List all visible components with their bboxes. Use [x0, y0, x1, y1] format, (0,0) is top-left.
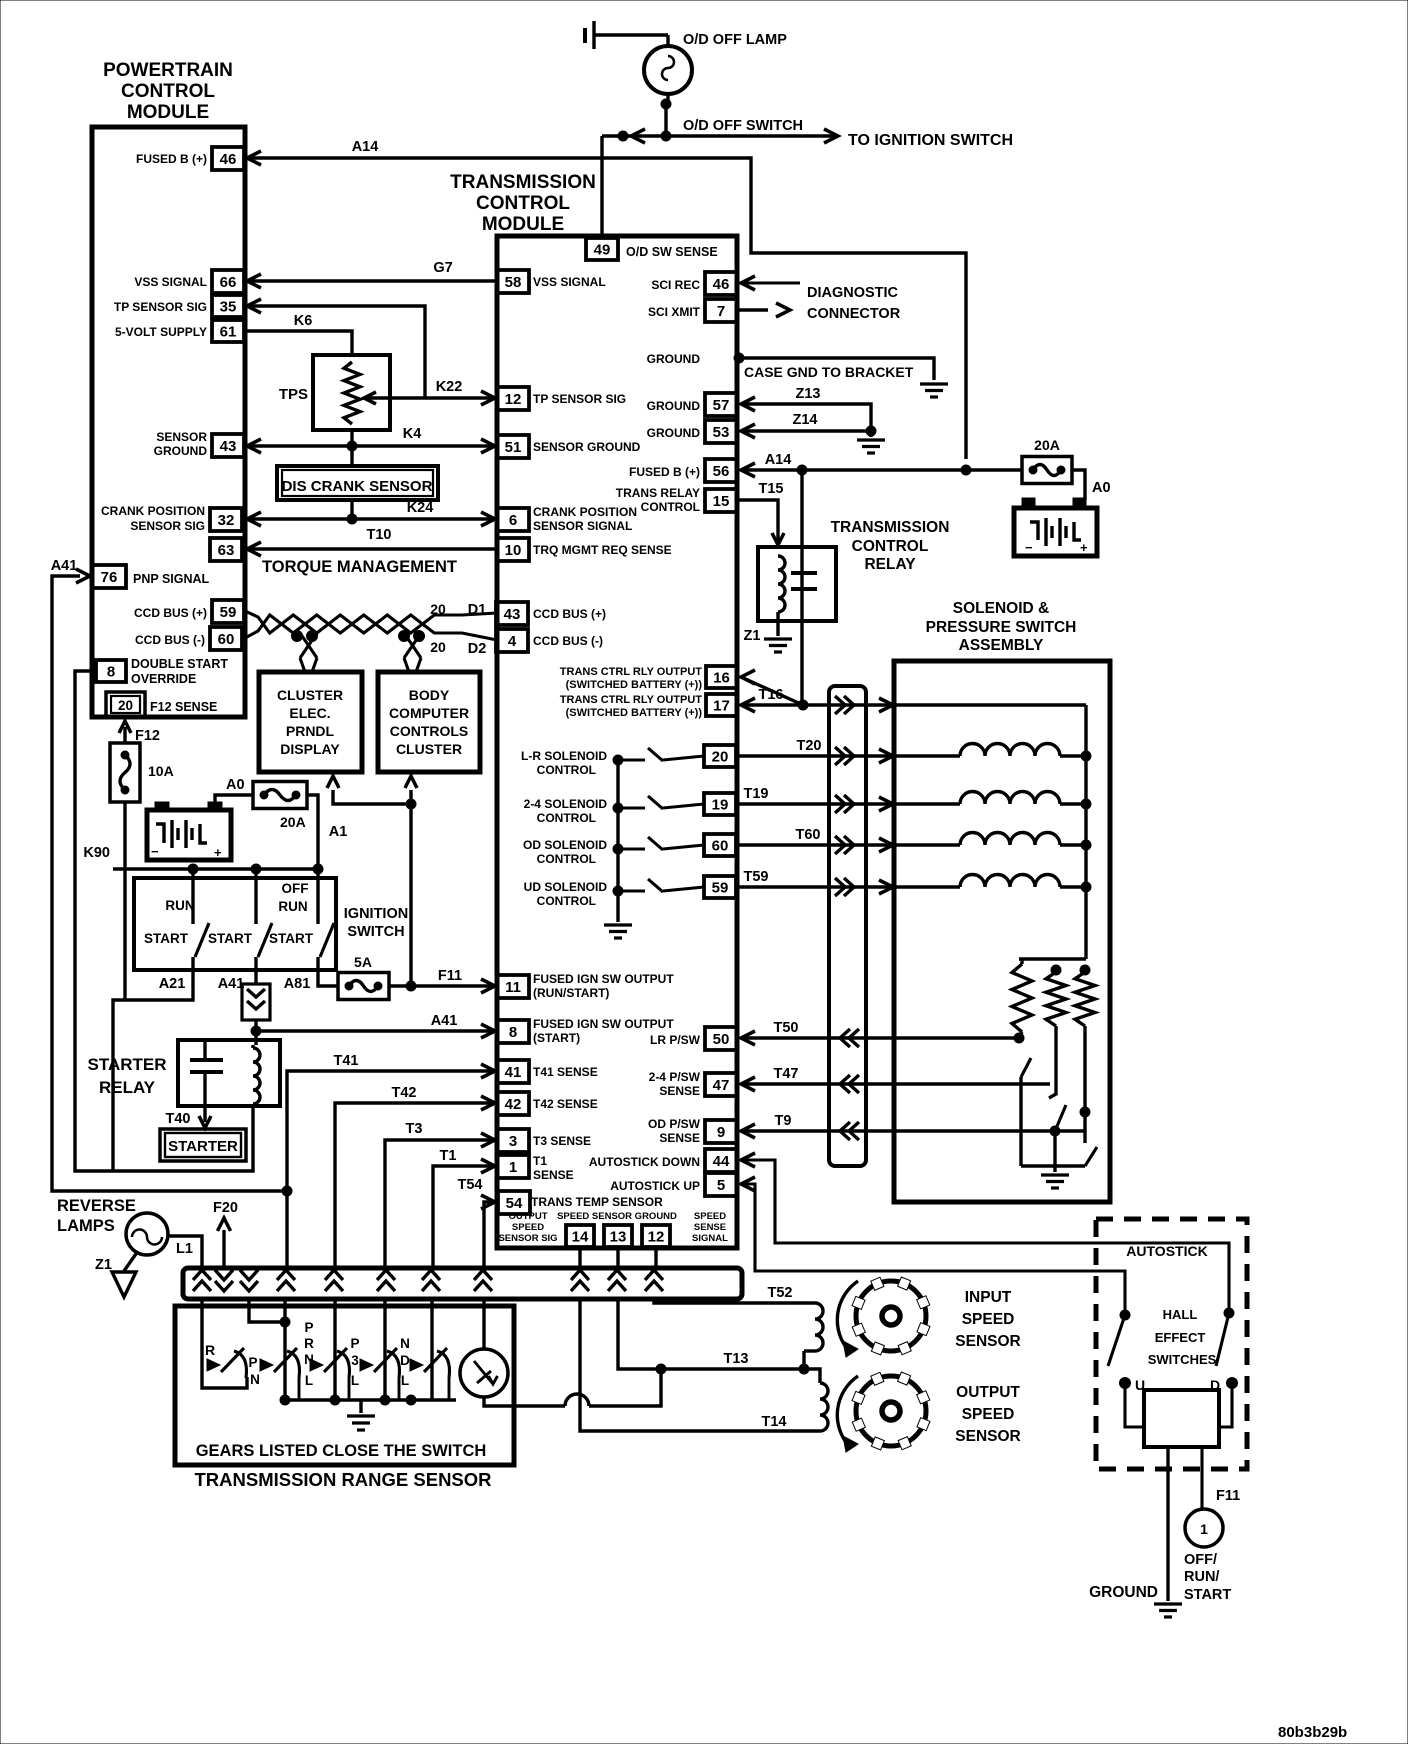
arrow T60 into assembly — [879, 838, 893, 852]
svg-text:AUTOSTICK UP: AUTOSTICK UP — [610, 1179, 700, 1193]
wire Z14 ground — [741, 429, 871, 432]
svg-text:43: 43 — [504, 606, 521, 623]
svg-text:Z1: Z1 — [744, 628, 761, 644]
svg-text:L-R SOLENOID: L-R SOLENOID — [521, 749, 607, 763]
svg-text:SENSOR SIGNAL: SENSOR SIGNAL — [533, 519, 632, 533]
wire T13 to output coil — [804, 1369, 820, 1383]
svg-text:5A: 5A — [354, 954, 372, 970]
hall switch down contact — [1224, 1308, 1234, 1318]
svg-text:T9: T9 — [775, 1113, 792, 1129]
svg-text:INPUT: INPUT — [965, 1289, 1012, 1306]
svg-text:FUSED B (+): FUSED B (+) — [136, 152, 207, 166]
ground Z1 triangle — [112, 1272, 136, 1297]
svg-text:P: P — [248, 1355, 257, 1370]
svg-text:T41 SENSE: T41 SENSE — [533, 1065, 598, 1079]
wire U to module — [1125, 1388, 1144, 1427]
svg-text:54: 54 — [506, 1195, 523, 1212]
svg-text:+: + — [214, 845, 222, 860]
pin 3 T3 SENSE — [497, 1129, 529, 1152]
wire T41 sense — [287, 1071, 495, 1268]
svg-text:Z1: Z1 — [95, 1257, 112, 1273]
PCM box — [92, 127, 245, 717]
wire PRNL feed — [283, 1298, 286, 1400]
svg-text:T52: T52 — [768, 1285, 793, 1301]
svg-text:ASSEMBLY: ASSEMBLY — [959, 637, 1044, 654]
wire coil to bus T60 — [1060, 843, 1086, 846]
wire TPS bottom to K4 — [350, 428, 353, 446]
svg-text:T10: T10 — [367, 527, 392, 543]
wire K6 5-volt supply to TPS — [245, 331, 352, 357]
ignition switch pole OFF/RUN/START — [316, 869, 319, 924]
junction on switch wire left — [618, 131, 628, 141]
arrow T59 into assembly — [879, 880, 893, 894]
switch range NDL — [410, 1359, 423, 1371]
svg-text:20A: 20A — [280, 814, 306, 830]
pin 51 SENSOR GROUND — [497, 435, 529, 458]
pin 60 OD SOLENOID CONTROL — [704, 834, 736, 856]
switch range PRNL — [310, 1359, 323, 1371]
pin 53 GROUND — [705, 420, 737, 443]
pin 54 TRANS TEMP SENSOR — [498, 1191, 530, 1214]
lamp reverse — [126, 1213, 168, 1255]
arrow into starter — [199, 1116, 211, 1128]
junction 4th rail — [406, 1395, 416, 1405]
input speed sensor rotation arrow — [837, 1281, 858, 1351]
junction CCD drop to body computer a — [399, 631, 410, 642]
bar chevron up at 654 — [645, 1270, 663, 1291]
svg-text:A41: A41 — [51, 558, 78, 574]
wire from feed to O/D off lamp — [594, 33, 668, 36]
svg-text:SCI XMIT: SCI XMIT — [648, 305, 701, 319]
junction T50 node — [1014, 1033, 1024, 1043]
svg-text:1: 1 — [509, 1159, 517, 1176]
svg-text:4: 4 — [508, 633, 517, 650]
svg-text:TRANSMISSION RANGE SENSOR: TRANSMISSION RANGE SENSOR — [194, 1469, 491, 1490]
svg-text:A21: A21 — [159, 976, 186, 992]
svg-text:D: D — [400, 1353, 410, 1368]
svg-text:60: 60 — [218, 631, 235, 648]
pin 17 TRANS CTRL RLY OUTPUT — [706, 694, 737, 716]
svg-text:T3: T3 — [406, 1121, 423, 1137]
svg-text:T59: T59 — [744, 869, 769, 885]
BODY COMPUTER CONTROLS CLUSTER box — [378, 672, 480, 772]
switch range R — [207, 1359, 220, 1371]
svg-text:P: P — [350, 1336, 359, 1351]
svg-text:O/D SW SENSE: O/D SW SENSE — [626, 245, 718, 259]
arrow into PCM pin 76 — [76, 569, 90, 583]
CLUSTER ELEC PRNDL DISPLAY box — [259, 672, 362, 772]
svg-text:12: 12 — [648, 1229, 665, 1246]
svg-text:SWITCHES: SWITCHES — [1148, 1352, 1217, 1367]
svg-text:6: 6 — [509, 512, 517, 529]
pin 5 AUTOSTICK UP — [705, 1173, 737, 1196]
svg-text:3: 3 — [351, 1353, 359, 1368]
wire A21 to starter relay — [113, 970, 193, 1171]
svg-text:T42 SENSE: T42 SENSE — [533, 1097, 598, 1111]
junction rail start — [251, 864, 261, 874]
junction A14 relay branch — [797, 465, 807, 475]
junction NDL rail — [380, 1395, 390, 1405]
wire T54 trans temp sensor — [484, 1202, 497, 1268]
svg-text:T1: T1 — [533, 1154, 547, 1168]
TPS box — [313, 355, 390, 430]
junction TCM case ground — [734, 353, 744, 363]
solenoid feed bus — [1084, 705, 1087, 959]
CCD drop twist to body computer — [404, 633, 421, 658]
bar chevron up at 617 — [608, 1270, 626, 1291]
wire PRNL jog — [249, 1298, 285, 1322]
STARTER box — [160, 1129, 246, 1161]
svg-text:O/D OFF SWITCH: O/D OFF SWITCH — [683, 118, 803, 134]
svg-text:START: START — [208, 931, 253, 946]
wire pin 12 to bar — [654, 1248, 657, 1268]
svg-text:CRANK POSITION: CRANK POSITION — [533, 505, 637, 519]
solenoid coil T20 — [960, 744, 1060, 757]
arrow into PCM pin 43 — [247, 439, 261, 453]
svg-text:SENSE: SENSE — [694, 1222, 726, 1233]
arrow into cluster box — [327, 776, 339, 788]
arrow into TCM pin 46 — [741, 276, 755, 290]
connector F11 circle 1 — [1185, 1509, 1223, 1547]
pin 66 VSS SIGNAL — [212, 270, 244, 293]
svg-text:CONTROL: CONTROL — [121, 81, 215, 102]
wire SCI REC from diagnostic connector — [741, 282, 800, 285]
svg-text:SENSOR: SENSOR — [955, 1428, 1020, 1445]
bar chevron up at 202 — [193, 1270, 211, 1291]
svg-text:RUN: RUN — [278, 899, 307, 914]
wire Z13 ground — [741, 404, 871, 431]
svg-text:46: 46 — [220, 151, 237, 168]
starter relay coil — [251, 1045, 254, 1048]
arrow to ignition switch — [824, 129, 838, 143]
arrow into pin 56 — [741, 463, 755, 477]
svg-text:ELEC.: ELEC. — [289, 705, 330, 721]
wire torque management request — [247, 547, 497, 550]
wire case ground to bracket — [739, 358, 934, 380]
wire T3 sense — [385, 1140, 495, 1268]
junction OD switch — [1080, 1107, 1090, 1117]
wire T19 solenoid control — [737, 802, 960, 805]
svg-text:OVERRIDE: OVERRIDE — [131, 672, 196, 686]
wire reverse lamp to ground Z1 — [124, 1251, 138, 1271]
svg-text:F12 SENSE: F12 SENSE — [150, 700, 217, 714]
svg-text:TRANSMISSION: TRANSMISSION — [450, 172, 596, 193]
starter relay box — [178, 1040, 280, 1106]
junction bus T20 — [1081, 751, 1091, 761]
ignition switch pole START — [254, 869, 257, 924]
connector A41 pass-through — [242, 984, 270, 1020]
svg-text:+: + — [1080, 540, 1088, 555]
junction A41 node — [251, 1026, 261, 1036]
svg-text:F11: F11 — [1216, 1488, 1240, 1504]
svg-text:19: 19 — [712, 797, 729, 814]
svg-text:42: 42 — [505, 1096, 522, 1113]
svg-text:CONNECTOR: CONNECTOR — [807, 306, 901, 322]
wire 2-4 resistor lower — [1049, 1026, 1056, 1098]
svg-text:STARTER: STARTER — [87, 1055, 166, 1074]
junction F11/A1 — [406, 981, 416, 991]
output speed sensor coil — [820, 1383, 828, 1431]
arrow T20 into assembly — [879, 749, 893, 763]
arrow into pin 42 — [481, 1096, 495, 1110]
wire temp sensor return — [484, 1397, 565, 1406]
wire A81 to 5A fuse — [318, 970, 338, 986]
svg-text:51: 51 — [505, 439, 522, 456]
svg-text:SPEED: SPEED — [694, 1211, 726, 1222]
connector chevrons T9 — [840, 1122, 859, 1140]
svg-text:T1: T1 — [440, 1148, 457, 1164]
autostick dashed box — [1096, 1219, 1247, 1469]
wire A41 node to relay coil — [254, 1031, 257, 1045]
arrow into PCM pin 20 — [119, 721, 131, 733]
pin 41 T41 SENSE — [497, 1060, 529, 1083]
svg-text:T41: T41 — [334, 1053, 359, 1069]
wire T52 speed sense signal — [654, 1298, 815, 1303]
svg-text:T40: T40 — [166, 1111, 191, 1127]
junction TPS ground — [347, 441, 357, 451]
svg-text:A14: A14 — [765, 452, 792, 468]
junction T9 switch — [1050, 1126, 1060, 1136]
arrow into PCM pin 46 — [247, 151, 261, 165]
wire A14 from TCM area to PCM pin 46 — [247, 158, 966, 459]
svg-text:UD SOLENOID: UD SOLENOID — [524, 880, 608, 894]
ground autostick — [1154, 1602, 1182, 1605]
svg-text:FUSED IGN SW OUTPUT: FUSED IGN SW OUTPUT — [533, 972, 674, 986]
junction A1 node — [406, 799, 416, 809]
wire T50 LR pressure switch — [741, 1036, 1019, 1039]
svg-text:7: 7 — [717, 303, 725, 320]
pin 60 CCD BUS (-) — [210, 627, 242, 650]
svg-text:START: START — [1184, 1587, 1231, 1603]
svg-text:SOLENOID &: SOLENOID & — [953, 600, 1049, 617]
svg-text:5-VOLT SUPPLY: 5-VOLT SUPPLY — [115, 325, 207, 339]
wire O/D switch sense down to TCM pin 49 — [600, 136, 603, 238]
connector bar — [183, 1268, 742, 1299]
svg-text:15: 15 — [713, 493, 730, 510]
wire autostick down from pin 44 — [741, 1160, 1229, 1308]
svg-text:TPS: TPS — [279, 386, 308, 403]
svg-text:K24: K24 — [407, 500, 434, 516]
wire T40 to starter — [203, 1106, 206, 1122]
svg-text:CRANK POSITION: CRANK POSITION — [101, 504, 205, 518]
hall switch down arm — [1216, 1313, 1229, 1366]
svg-text:44: 44 — [713, 1153, 730, 1170]
wire F12 to PCM pin 20 — [123, 727, 126, 743]
svg-text:T14: T14 — [762, 1414, 787, 1430]
svg-text:57: 57 — [713, 397, 730, 414]
svg-text:SENSE: SENSE — [659, 1131, 700, 1145]
svg-text:L1: L1 — [176, 1241, 193, 1257]
connector chevrons T16 — [835, 696, 854, 714]
svg-text:G7: G7 — [433, 260, 452, 276]
svg-text:HALL: HALL — [1163, 1307, 1198, 1322]
svg-text:EFFECT: EFFECT — [1155, 1330, 1206, 1345]
solenoid coil T19 — [960, 792, 1060, 805]
svg-text:T50: T50 — [774, 1020, 799, 1036]
junction A14 feed — [961, 465, 971, 475]
wire T20 solenoid control — [737, 754, 960, 757]
wire pressure switch top rail — [1019, 957, 1086, 960]
wire T42 sense — [335, 1103, 495, 1268]
arrow into TCM pin 6 — [481, 512, 495, 526]
wire coil to bus T20 — [1060, 754, 1086, 757]
svg-text:OFF: OFF — [282, 881, 309, 896]
pin 9 OD P/SW SENSE — [705, 1120, 737, 1143]
ignition feed rail — [113, 867, 318, 870]
TCM box — [497, 236, 737, 1248]
svg-text:L: L — [305, 1373, 313, 1388]
pin 16 TRANS CTRL RLY OUTPUT — [706, 666, 737, 688]
wire T14 output speed signal — [580, 1298, 820, 1431]
svg-text:43: 43 — [220, 438, 237, 455]
svg-text:3: 3 — [509, 1133, 517, 1150]
svg-text:T13: T13 — [724, 1351, 749, 1367]
pressure switch ground rail — [1021, 1164, 1085, 1167]
svg-text:IGNITION: IGNITION — [344, 906, 408, 922]
connector chevrons T59 — [835, 878, 854, 896]
svg-text:TO IGNITION SWITCH: TO IGNITION SWITCH — [848, 132, 1013, 149]
wire coil to bus T19 — [1060, 802, 1086, 805]
svg-text:PRNDL: PRNDL — [286, 723, 335, 739]
pin 15 TRANS RELAY CONTROL — [705, 489, 737, 512]
junction DIS on K24 wire — [347, 514, 357, 524]
switch range PN — [260, 1359, 273, 1371]
bar chevron down at 224 — [215, 1270, 233, 1291]
junction bus T59 — [1081, 882, 1091, 892]
svg-text:56: 56 — [713, 463, 730, 480]
wire A41 PNP signal from range sensor — [52, 576, 287, 1191]
pin 32 CRANK POSITION SENSOR SIG — [210, 508, 242, 531]
wire T13 sensor ground — [618, 1298, 804, 1369]
wire lamp return into range sensor — [202, 1298, 247, 1388]
svg-text:VSS SIGNAL: VSS SIGNAL — [134, 275, 207, 289]
svg-text:CONTROL: CONTROL — [537, 852, 596, 866]
arrow left on switch wire — [631, 129, 645, 143]
junction driver bus row T59 — [613, 886, 623, 896]
svg-text:66: 66 — [220, 274, 237, 291]
svg-text:TRANS CTRL RLY OUTPUT: TRANS CTRL RLY OUTPUT — [560, 666, 702, 678]
arrow into pin 44 — [741, 1153, 755, 1167]
junction T13 input coil — [799, 1364, 809, 1374]
wire fuse to ignition rail — [307, 795, 318, 869]
svg-text:12: 12 — [505, 391, 522, 408]
pin 11 FUSED IGN SW OUTPUT (RUN/START) — [497, 975, 529, 998]
fuse 20A ignition feed — [253, 782, 307, 809]
wire A1 to body computer box — [409, 790, 412, 804]
svg-text:GROUND: GROUND — [154, 444, 208, 458]
junction P3L rail — [330, 1395, 340, 1405]
svg-text:CONTROL: CONTROL — [537, 894, 596, 908]
junction PRNL rail — [280, 1395, 290, 1405]
arrow into pin 47 — [741, 1077, 755, 1091]
svg-text:58: 58 — [505, 274, 522, 291]
resistor 2-4 pressure — [1051, 965, 1061, 975]
junction CCD drop to body computer b — [414, 631, 425, 642]
CCD bus twisted pair — [245, 611, 497, 633]
svg-text:R: R — [205, 1342, 215, 1358]
wire SCI XMIT to diagnostic connector — [739, 308, 768, 311]
svg-text:16: 16 — [713, 670, 730, 687]
svg-text:(START): (START) — [533, 1031, 580, 1045]
connector chevrons T19 — [835, 795, 854, 813]
svg-text:REVERSE: REVERSE — [57, 1197, 136, 1215]
pin 46 SCI REC — [705, 272, 737, 295]
wire lamp to switch node — [666, 94, 669, 104]
pin 1 T1 SENSE — [497, 1155, 529, 1178]
svg-text:10: 10 — [505, 542, 522, 559]
wire A1 riser — [409, 804, 412, 986]
junction rail off-run — [313, 864, 323, 874]
svg-text:COMPUTER: COMPUTER — [389, 705, 469, 721]
svg-text:CLUSTER: CLUSTER — [396, 741, 462, 757]
svg-text:T60: T60 — [796, 827, 821, 843]
svg-text:L: L — [401, 1373, 409, 1388]
svg-text:60: 60 — [712, 838, 729, 855]
junction T16 node — [798, 700, 808, 710]
svg-text:SENSE: SENSE — [659, 1084, 700, 1098]
svg-text:K4: K4 — [403, 426, 422, 442]
svg-text:−: − — [1025, 540, 1033, 555]
pin 50 LR P/SW — [705, 1027, 737, 1050]
pin 76 PNP SIGNAL — [92, 565, 126, 588]
output speed sensor rotation arrow — [837, 1376, 858, 1446]
wire PCM pin 8 double start override — [75, 671, 253, 1171]
svg-text:Z14: Z14 — [793, 412, 818, 428]
arrow into TCM pin 51 — [481, 439, 495, 453]
svg-text:TRQ MGMT REQ SENSE: TRQ MGMT REQ SENSE — [533, 543, 672, 557]
junction rail run — [188, 864, 198, 874]
lamp O/D OFF LAMP — [644, 46, 692, 94]
arrow into TCM pin 12 — [481, 391, 495, 405]
svg-text:N: N — [304, 1352, 314, 1367]
svg-text:O/D OFF LAMP: O/D OFF LAMP — [683, 32, 787, 48]
svg-text:R: R — [304, 1336, 314, 1351]
svg-text:CONTROL: CONTROL — [537, 811, 596, 825]
svg-text:T3 SENSE: T3 SENSE — [533, 1134, 591, 1148]
wire T59 solenoid control — [737, 885, 960, 888]
svg-text:32: 32 — [218, 512, 235, 529]
arrow into TCM pin 11 — [481, 979, 495, 993]
wire K90 from fuse down — [123, 802, 126, 1000]
pin 56 FUSED B (+) — [705, 459, 737, 482]
pin 8 FUSED IGN SW OUTPUT (START) — [497, 1020, 529, 1043]
svg-text:(SWITCHED BATTERY (+)): (SWITCHED BATTERY (+)) — [566, 679, 703, 691]
wire A41 below connector — [254, 1020, 257, 1031]
wire relay coil to ground Z1 — [776, 612, 779, 636]
svg-text:2-4 SOLENOID: 2-4 SOLENOID — [524, 797, 608, 811]
pin 12 TP SENSOR SIG — [497, 387, 529, 410]
arrow into pin 9 — [741, 1124, 755, 1138]
svg-text:AUTOSTICK: AUTOSTICK — [1126, 1243, 1207, 1259]
battery right — [1014, 508, 1097, 556]
switch range P3L — [360, 1359, 373, 1371]
junction temp return on T13 — [656, 1364, 666, 1374]
svg-text:59: 59 — [712, 880, 729, 897]
arrow into pin 41 — [481, 1064, 495, 1078]
switch 2-4 pressure — [1019, 1077, 1022, 1166]
svg-text:SCI REC: SCI REC — [651, 278, 700, 292]
svg-text:SENSOR: SENSOR — [955, 1333, 1020, 1350]
hop over T14 wire — [565, 1394, 589, 1406]
svg-text:9: 9 — [717, 1124, 725, 1141]
svg-text:SENSOR SIG: SENSOR SIG — [130, 519, 205, 533]
svg-text:A41: A41 — [218, 976, 245, 992]
pin 46 FUSED B (+) — [212, 147, 244, 170]
svg-text:76: 76 — [101, 569, 118, 586]
svg-text:CONTROL: CONTROL — [852, 538, 929, 555]
svg-text:T20: T20 — [797, 738, 822, 754]
svg-text:CASE GND TO BRACKET: CASE GND TO BRACKET — [744, 364, 914, 380]
